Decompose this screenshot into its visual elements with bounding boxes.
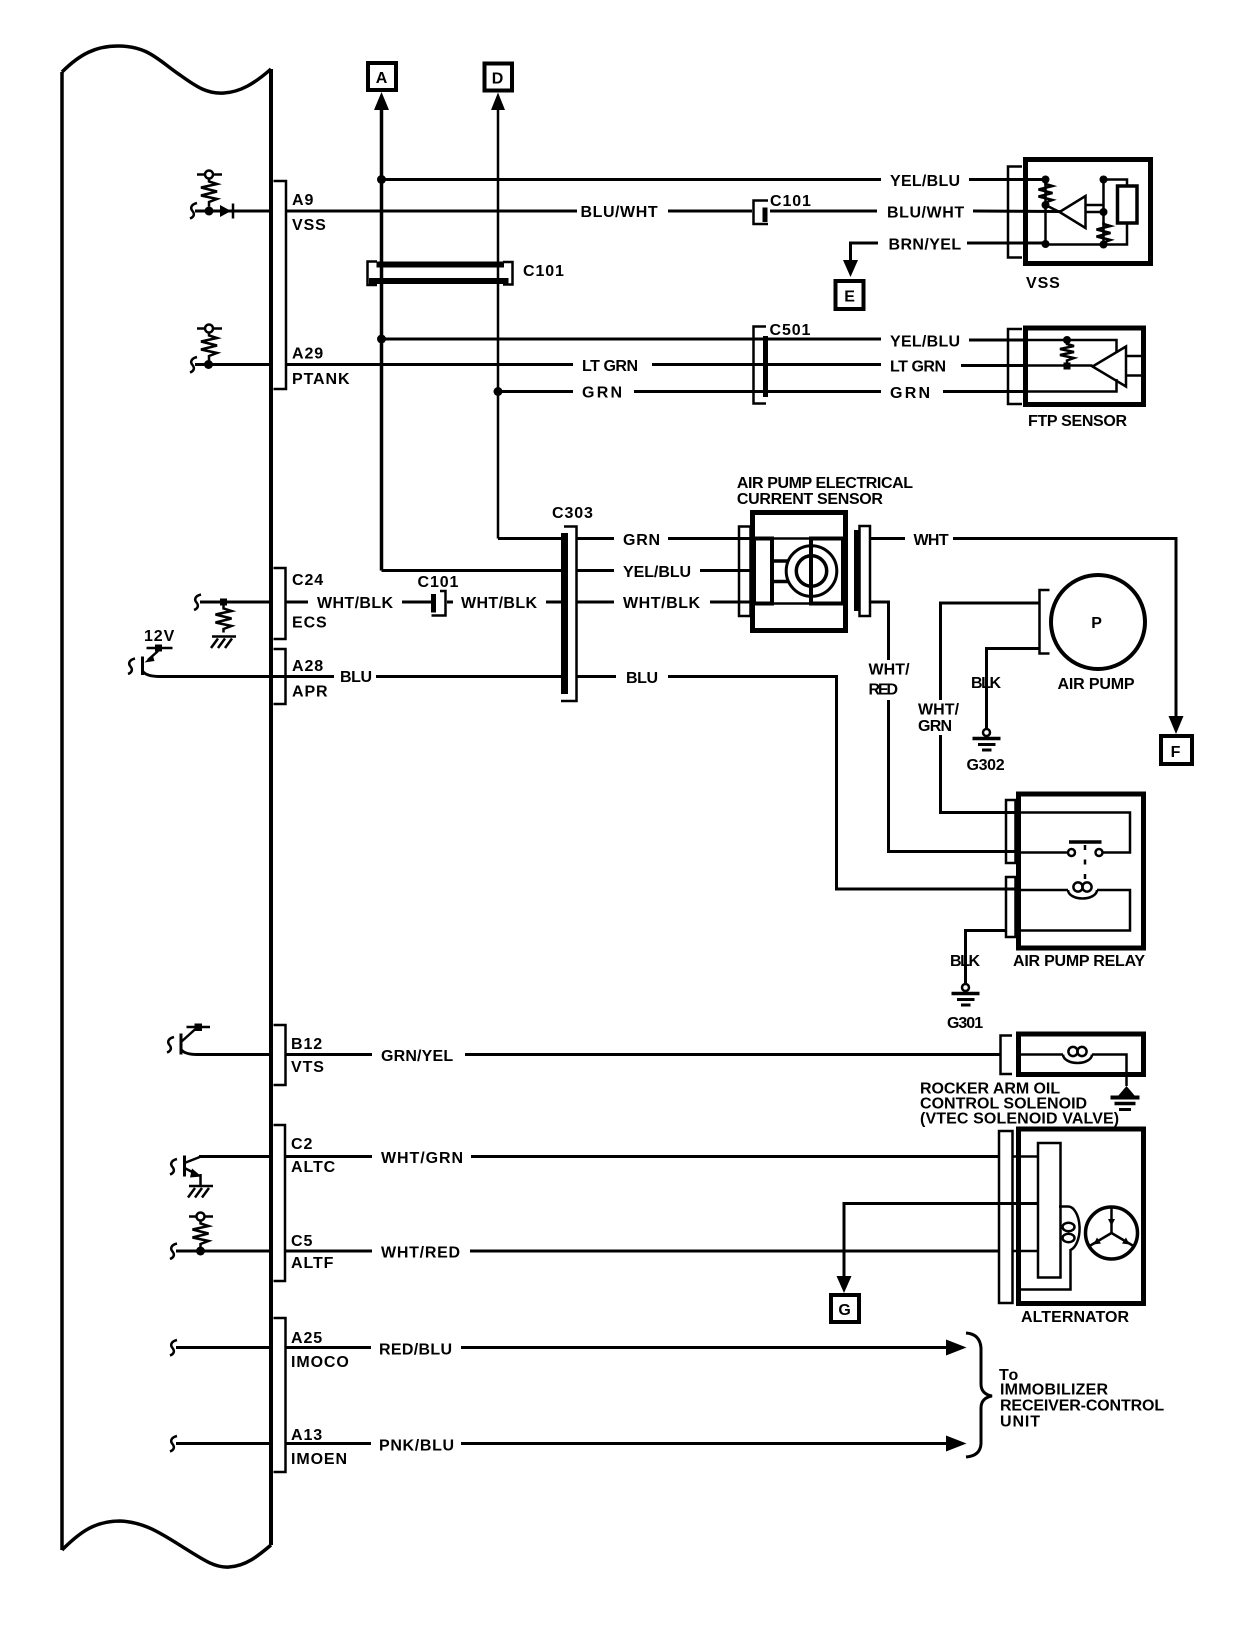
wire break squiggle A28 bbox=[128, 659, 135, 675]
FTP SENSOR box bbox=[1026, 328, 1144, 405]
wire BLU to C303 bbox=[376, 675, 561, 678]
svg-text:LT GRN: LT GRN bbox=[890, 359, 947, 376]
signal arrow A9 bbox=[220, 204, 233, 219]
ground G302 bbox=[973, 729, 1001, 750]
alternator internals bbox=[1012, 1143, 1080, 1290]
wire WHT/BLK to C101 bbox=[402, 601, 432, 604]
svg-text:G302: G302 bbox=[967, 757, 1006, 774]
12V supply symbol bbox=[143, 645, 173, 676]
wire break squiggle C5 bbox=[170, 1244, 177, 1260]
wire WHT from sensor bbox=[870, 532, 1176, 716]
svg-text:(VTEC SOLENOID VALVE): (VTEC SOLENOID VALVE) bbox=[920, 1111, 1120, 1128]
alternator 3-phase circle bbox=[1086, 1207, 1138, 1259]
wire A25 pin bbox=[176, 1346, 271, 1349]
svg-text:C101: C101 bbox=[418, 574, 460, 591]
wire BLU/WHT into VSS bbox=[973, 210, 1060, 214]
VSS connector bracket bbox=[1008, 167, 1022, 258]
wire YEL/BLU row1 right bbox=[969, 178, 1046, 181]
vertical wire A bbox=[380, 104, 384, 571]
svg-text:P: P bbox=[1091, 615, 1103, 632]
wire YEL/BLU sensor row bbox=[577, 564, 755, 581]
svg-text:F: F bbox=[1171, 744, 1182, 761]
VSS internal circuit bbox=[1039, 176, 1138, 249]
svg-text:AIR PUMP RELAY: AIR PUMP RELAY bbox=[1013, 953, 1146, 970]
wire YEL/BLU row1 bbox=[382, 178, 882, 181]
svg-text:A: A bbox=[376, 70, 388, 87]
wire LT GRN mid bbox=[652, 363, 881, 366]
air pump connector bracket bbox=[1040, 590, 1050, 654]
arrow box F bbox=[1161, 736, 1192, 764]
pin bracket A9/A29 group bbox=[274, 181, 287, 389]
pin bracket B12 bbox=[274, 1025, 286, 1085]
svg-text:C101: C101 bbox=[770, 193, 812, 210]
wire LT GRN left bbox=[286, 363, 573, 366]
wire GRN/YEL from B12 bbox=[286, 1048, 1001, 1065]
pull-up resistor C5 bbox=[189, 1213, 213, 1249]
relay connector bracket top bbox=[1006, 800, 1016, 863]
wire BLU/WHT mid bbox=[668, 210, 752, 213]
svg-text:YEL/BLU: YEL/BLU bbox=[623, 564, 692, 581]
pin bracket A25/A13 group bbox=[274, 1318, 286, 1472]
svg-text:AIR PUMP ELECTRICAL: AIR PUMP ELECTRICAL bbox=[737, 475, 914, 492]
ground G301 bbox=[952, 984, 980, 1005]
svg-text:12V: 12V bbox=[144, 628, 175, 645]
current sensor box bbox=[753, 513, 846, 631]
svg-text:ALTC: ALTC bbox=[291, 1159, 336, 1176]
transistor symbol B12 bbox=[167, 1024, 210, 1055]
svg-text:ECS: ECS bbox=[292, 615, 328, 632]
wire break squiggle A9 bbox=[190, 203, 197, 219]
ground hatch C24 bbox=[211, 637, 236, 649]
svg-text:GRN/YEL: GRN/YEL bbox=[381, 1048, 454, 1065]
resistor to ground C24 bbox=[216, 606, 232, 633]
svg-text:YEL/BLU: YEL/BLU bbox=[890, 173, 961, 190]
svg-text:GRN: GRN bbox=[918, 718, 953, 735]
junction dot A YEL/BLU row2 bbox=[377, 335, 386, 344]
svg-text:RECEIVER-CONTROL: RECEIVER-CONTROL bbox=[1000, 1398, 1165, 1415]
svg-text:G: G bbox=[838, 1302, 851, 1319]
svg-text:PTANK: PTANK bbox=[292, 371, 350, 388]
arrowhead up A bbox=[374, 92, 389, 110]
svg-text:RED/BLU: RED/BLU bbox=[379, 1342, 453, 1359]
current sensor internals bbox=[754, 539, 843, 604]
svg-text:BLU/WHT: BLU/WHT bbox=[887, 205, 965, 222]
svg-text:IMMOBILIZER: IMMOBILIZER bbox=[1000, 1382, 1109, 1399]
wire A28 pin bbox=[143, 671, 335, 677]
junction square C24 bbox=[220, 599, 227, 606]
arrow box D bbox=[485, 64, 513, 91]
solenoid coil bbox=[1021, 1047, 1127, 1086]
wire GRN left bbox=[498, 390, 573, 393]
wire YEL/BLU row2 bbox=[382, 338, 882, 341]
wire BRN/YEL bbox=[851, 237, 1047, 264]
ROCKER ARM OIL CONTROL SOLENOID box bbox=[1019, 1034, 1144, 1075]
svg-text:WHT/BLK: WHT/BLK bbox=[461, 595, 538, 612]
wire WHT/GRN from C2 bbox=[286, 1150, 998, 1167]
wire WHT/BLK sensor row bbox=[577, 595, 755, 612]
svg-text:A29: A29 bbox=[292, 346, 324, 363]
vertical wire D bbox=[497, 104, 500, 539]
svg-text:IMOCO: IMOCO bbox=[291, 1354, 350, 1371]
arrow box A bbox=[368, 63, 396, 90]
connector C501 bbox=[754, 327, 767, 404]
svg-text:WHT/: WHT/ bbox=[918, 702, 960, 719]
svg-text:YEL/BLU: YEL/BLU bbox=[890, 334, 961, 351]
svg-text:APR: APR bbox=[292, 684, 328, 701]
pin bracket A28 bbox=[274, 649, 286, 704]
svg-text:C501: C501 bbox=[770, 322, 812, 339]
arrowhead down G bbox=[837, 1276, 852, 1293]
wire B12 pin bbox=[181, 1050, 271, 1055]
svg-text:BLU: BLU bbox=[340, 669, 373, 686]
svg-text:WHT: WHT bbox=[914, 532, 950, 549]
wire C2 pin bbox=[199, 1155, 271, 1158]
wire WHT/BLK from C24 bbox=[286, 601, 308, 604]
arrowhead down E bbox=[843, 260, 858, 277]
junction dot C5 bbox=[196, 1247, 205, 1256]
svg-text:BLK: BLK bbox=[950, 953, 981, 970]
junction dot A YEL/BLU row1 bbox=[377, 175, 386, 184]
svg-text:WHT/BLK: WHT/BLK bbox=[317, 595, 394, 612]
relay connector bracket bottom bbox=[1006, 877, 1016, 937]
junction dot D GRN row bbox=[494, 387, 503, 396]
label WHT/GRN vertical bbox=[916, 700, 965, 735]
FTP connector bracket bbox=[1008, 329, 1022, 404]
ECM connector body (wavy band) bbox=[62, 46, 271, 1567]
wire sensor to relay (WHT/RED) bbox=[870, 602, 1018, 852]
svg-text:C24: C24 bbox=[292, 572, 324, 589]
svg-text:BLU: BLU bbox=[626, 670, 659, 687]
arrow box E bbox=[836, 281, 864, 309]
svg-text:G301: G301 bbox=[947, 1015, 984, 1032]
wire BLK relay to ground bbox=[966, 931, 1008, 984]
wire WHT/GRN pump to relay bbox=[941, 603, 1040, 813]
wire BLU/WHT row (A9) bbox=[286, 210, 577, 213]
connector C101 on BLU/WHT bbox=[754, 201, 769, 225]
air pump motor circle bbox=[1051, 575, 1145, 669]
alternator connector bbox=[999, 1131, 1013, 1303]
wire WHT/BLK to C303 bbox=[546, 601, 561, 604]
svg-text:WHT/BLK: WHT/BLK bbox=[623, 595, 701, 612]
pull-up resistor A9 bbox=[197, 171, 222, 207]
arrowhead RED/BLU bbox=[946, 1340, 967, 1356]
wire BLU sensor row bbox=[577, 670, 1018, 889]
pin bracket C2/C5 group bbox=[274, 1125, 286, 1281]
connector C101 bulk (A/D pass-through) bbox=[368, 262, 513, 286]
svg-text:ALTF: ALTF bbox=[291, 1255, 334, 1272]
wire RED/BLU from A25 bbox=[286, 1342, 948, 1359]
label WHT/RED vertical bbox=[866, 660, 913, 700]
wire C24 pin bbox=[200, 601, 271, 604]
wire GRN to C303 bbox=[498, 537, 561, 540]
svg-text:WHT/RED: WHT/RED bbox=[381, 1245, 461, 1262]
svg-text:VSS: VSS bbox=[1026, 275, 1061, 292]
svg-text:C2: C2 bbox=[291, 1136, 313, 1153]
wire YEL/BLU row2 into FTP bbox=[969, 339, 1025, 342]
wire BLU from A28 bbox=[286, 675, 334, 678]
wire YEL/BLU to C303 bbox=[382, 569, 562, 572]
ground (solenoid) bbox=[1111, 1086, 1140, 1110]
wire GRN into FTP bbox=[943, 390, 1025, 393]
svg-text:BLU/WHT: BLU/WHT bbox=[581, 204, 659, 221]
svg-text:ALTERNATOR: ALTERNATOR bbox=[1021, 1309, 1130, 1326]
svg-text:E: E bbox=[844, 289, 856, 306]
wire A29 pin bbox=[195, 363, 271, 366]
wire break squiggle A29 bbox=[190, 357, 197, 373]
svg-text:FTP SENSOR: FTP SENSOR bbox=[1028, 413, 1128, 430]
svg-text:A9: A9 bbox=[292, 192, 314, 209]
svg-text:AIR PUMP: AIR PUMP bbox=[1058, 676, 1136, 693]
svg-text:WHT/: WHT/ bbox=[869, 662, 911, 679]
wire C5 pin bbox=[176, 1250, 271, 1253]
AIR PUMP RELAY box bbox=[1019, 794, 1144, 948]
svg-text:GRN: GRN bbox=[623, 532, 661, 549]
svg-text:BLK: BLK bbox=[971, 675, 1002, 692]
arrow box G bbox=[831, 1295, 859, 1322]
VSS box bbox=[1026, 160, 1151, 264]
transistor symbol C2 bbox=[170, 1156, 213, 1198]
pin bracket C24 bbox=[274, 568, 286, 639]
wire WHT/BLK mid bbox=[447, 601, 453, 604]
brace to immobilizer bbox=[966, 1333, 992, 1457]
solenoid connector bracket bbox=[1001, 1036, 1013, 1075]
svg-text:CURRENT SENSOR: CURRENT SENSOR bbox=[737, 491, 884, 508]
svg-text:GRN: GRN bbox=[890, 385, 931, 402]
connector C303 bbox=[561, 527, 577, 702]
wire LT GRN into FTP bbox=[961, 364, 1025, 367]
svg-text:IMOEN: IMOEN bbox=[291, 1451, 348, 1468]
wire break squiggle C24 bbox=[194, 595, 201, 611]
wire alternator to G bbox=[844, 1204, 1038, 1286]
svg-text:RED: RED bbox=[869, 682, 900, 699]
svg-text:C101: C101 bbox=[523, 263, 565, 280]
svg-text:GRN: GRN bbox=[582, 385, 623, 402]
svg-text:C5: C5 bbox=[291, 1233, 313, 1250]
wire GRN mid bbox=[634, 390, 881, 393]
svg-text:VSS: VSS bbox=[292, 217, 327, 234]
wire break squiggle A13 bbox=[170, 1436, 177, 1452]
wire WHT/RED from C5 bbox=[286, 1245, 998, 1262]
current sensor right connector bbox=[857, 526, 871, 616]
ALTERNATOR box bbox=[1019, 1129, 1144, 1304]
arrowhead down F bbox=[1169, 716, 1184, 734]
arrowhead PNK/BLU bbox=[946, 1436, 967, 1452]
connector C101 on WHT/BLK bbox=[432, 591, 446, 616]
wire BLK pump to ground bbox=[987, 649, 1040, 730]
relay internals bbox=[1021, 813, 1130, 931]
FTP internal circuit bbox=[1028, 336, 1141, 392]
svg-text:A25: A25 bbox=[291, 1330, 323, 1347]
wire break squiggle A25 bbox=[170, 1340, 177, 1356]
wire PNK/BLU from A13 bbox=[286, 1438, 948, 1455]
svg-text:A28: A28 bbox=[292, 658, 324, 675]
junction dot A29 bbox=[204, 360, 213, 369]
wire A13 pin bbox=[176, 1442, 271, 1445]
svg-text:WHT/GRN: WHT/GRN bbox=[381, 1150, 464, 1167]
svg-text:D: D bbox=[492, 71, 504, 88]
svg-text:UNIT: UNIT bbox=[1000, 1414, 1041, 1431]
svg-text:VTS: VTS bbox=[291, 1059, 325, 1076]
wire BLU/WHT right bbox=[770, 210, 877, 213]
svg-text:A13: A13 bbox=[291, 1427, 323, 1444]
svg-text:B12: B12 bbox=[291, 1036, 323, 1053]
svg-text:BRN/YEL: BRN/YEL bbox=[889, 237, 963, 254]
svg-text:PNK/BLU: PNK/BLU bbox=[379, 1438, 455, 1455]
wire A9 pin bbox=[195, 210, 271, 213]
svg-text:C303: C303 bbox=[552, 505, 594, 522]
svg-text:LT GRN: LT GRN bbox=[582, 358, 639, 375]
junction dot A9 bbox=[205, 207, 214, 216]
pull-up resistor A29 bbox=[197, 325, 222, 361]
current sensor left connector bbox=[739, 527, 751, 617]
arrowhead up D bbox=[491, 93, 505, 111]
wire GRN sensor row bbox=[577, 532, 755, 549]
